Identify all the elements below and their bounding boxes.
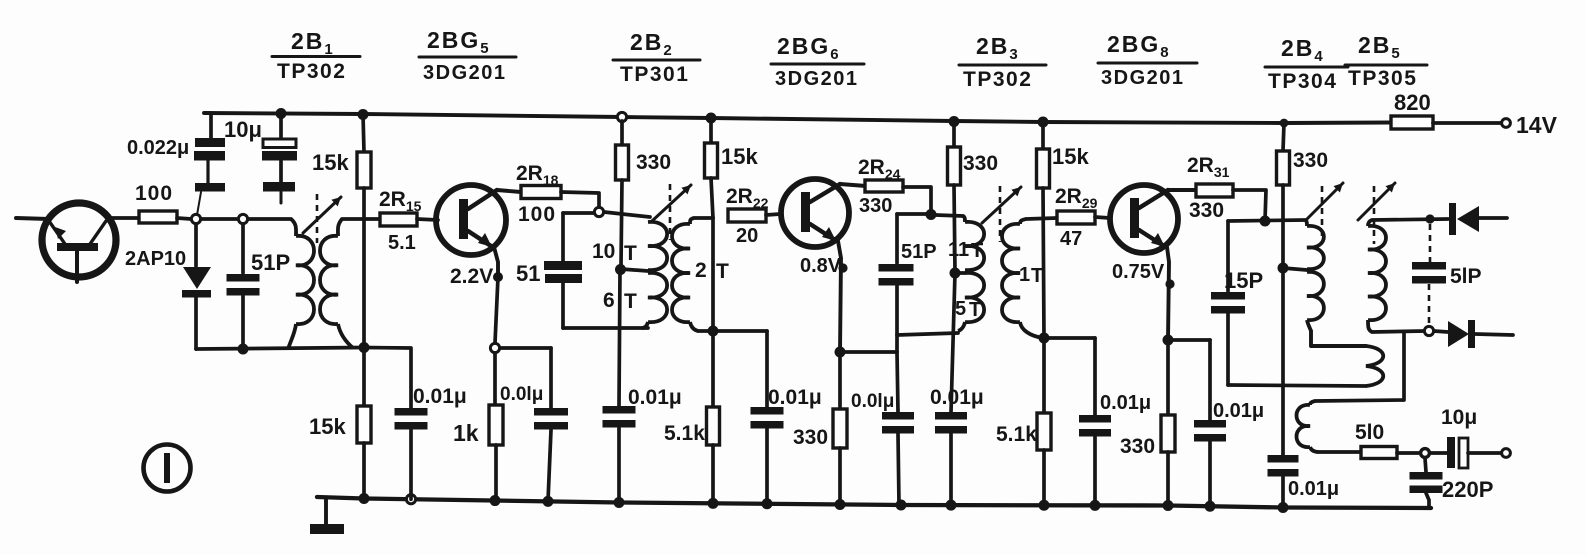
resistor 2R31 330 (collector to detector tank) bbox=[1196, 184, 1233, 197]
wire 2R29 to base of 2BG8 bbox=[1095, 217, 1110, 218]
adjustable core of 2B4 bbox=[1321, 186, 1324, 244]
svg-text:0.01μ: 0.01μ bbox=[1288, 478, 1339, 500]
svg-text:TP302: TP302 bbox=[963, 68, 1032, 91]
resistor 15k (bias, stage 3) bbox=[1037, 117, 1050, 339]
wire tank node to 15P and 2B4 top bbox=[1228, 220, 1306, 221]
resistor 2R24 330 (collector to tank, stage 2) bbox=[865, 180, 903, 192]
transformer 2B4 secondary winding (coupling loop) bbox=[1311, 331, 1383, 386]
wire from 820 to 14V terminal bbox=[1433, 121, 1501, 125]
wire 2R22 to base of 2BG6 bbox=[766, 214, 780, 215]
svg-text:0.01μ: 0.01μ bbox=[1213, 400, 1264, 422]
node emitter junction stage 3 bbox=[1163, 335, 1174, 346]
wire 2BG8 emitter down bbox=[1167, 247, 1169, 340]
svg-text:0.01μ: 0.01μ bbox=[1100, 392, 1151, 414]
transistor 2BG6 (2nd IF amplifier) bbox=[781, 179, 849, 247]
svg-text:15k: 15k bbox=[1052, 144, 1089, 169]
svg-text:10μ: 10μ bbox=[224, 117, 262, 142]
svg-text:0.01μ: 0.01μ bbox=[768, 386, 822, 409]
junction dot on ground bus (15k stage1) bbox=[359, 493, 370, 504]
capacitor 10u electrolytic output coupling bbox=[1430, 437, 1501, 468]
node tank top junction (open) bbox=[594, 207, 603, 216]
wire junction to 51P cap lead bbox=[897, 212, 926, 216]
capacitor 0.01u (2B2 tap bypass) bbox=[603, 406, 636, 502]
transformer 2B2 primary winding 10T+6T bbox=[642, 222, 667, 328]
diode D1 detector (cathode left) bbox=[1449, 203, 1507, 235]
svg-text:2: 2 bbox=[695, 259, 707, 282]
label 2BG8/3DG201 (transistor V3 designator) bbox=[1098, 31, 1197, 89]
transformer 2B3 primary winding 11T+5T bbox=[958, 216, 984, 331]
wire 2B3 secondary top to base node stage3 bbox=[1026, 218, 1057, 219]
wire input lead from left edge bbox=[16, 218, 49, 219]
junction dot on ground bus (0.01u em s3) bbox=[1205, 501, 1216, 512]
test point dot on emitter 2BG6 bbox=[838, 263, 847, 272]
wire emitter node to bypass cap bbox=[840, 350, 897, 354]
svg-text:TP301: TP301 bbox=[620, 63, 689, 86]
svg-text:10: 10 bbox=[592, 240, 615, 263]
junction dot on ground bus (0.01u 2B3) bbox=[946, 500, 957, 511]
svg-text:0.0lμ: 0.0lμ bbox=[500, 384, 543, 405]
capacitor 0.01u emitter bypass stage 3 bbox=[1194, 340, 1226, 506]
test point dot on emitter 2BG8 bbox=[1165, 279, 1174, 288]
node emitter bias junction (open) bbox=[490, 343, 499, 352]
wire base node down to lower bias node bbox=[362, 219, 366, 347]
resistor 2R29 47 (base series, stage 3) bbox=[1057, 211, 1095, 224]
capacitor 0.01u (2B4 tap bypass) bbox=[1268, 455, 1299, 508]
svg-text:47: 47 bbox=[1060, 228, 1082, 250]
capacitor 51P (2B3 tank) bbox=[879, 214, 914, 352]
svg-text:100: 100 bbox=[135, 182, 173, 205]
resistor 5.1k (bias lower, stage 2) bbox=[707, 331, 720, 504]
capacitor 0.01u emitter bypass stage 2 bbox=[882, 352, 914, 505]
resistor 100 (series input) bbox=[139, 211, 177, 223]
svg-text:15k: 15k bbox=[721, 144, 758, 169]
wire node A to node B bbox=[201, 217, 238, 221]
adjustable core of 2B1 bbox=[316, 194, 319, 243]
junction dot on ground bus (0.01u s2 base) bbox=[762, 498, 773, 509]
capacitor 10u electrolytic (supply bypass) bbox=[262, 108, 297, 203]
wire 2B3 tank bottom rail bbox=[897, 333, 958, 335]
svg-text:5: 5 bbox=[955, 298, 966, 320]
resistor 330 (emitter, stage 2) bbox=[833, 352, 847, 505]
svg-text:T: T bbox=[624, 242, 637, 265]
capacitor 0.01u (2B3 tap bypass) bbox=[935, 412, 967, 505]
transformer 2B1 primary winding bbox=[288, 219, 314, 349]
svg-text:3DG201: 3DG201 bbox=[775, 68, 859, 90]
wire emitter node to 0.01u bypass bbox=[500, 346, 551, 350]
svg-text:15k: 15k bbox=[309, 414, 346, 439]
svg-text:1k: 1k bbox=[453, 420, 479, 446]
capacitor 51 (2B2 tank) bbox=[544, 213, 582, 328]
node junction open at diode rail bbox=[1424, 326, 1433, 335]
svg-text:330: 330 bbox=[636, 151, 671, 174]
svg-text:100: 100 bbox=[518, 203, 556, 226]
svg-text:2AP10: 2AP10 bbox=[125, 248, 186, 270]
label 2BG6/3DG201 (transistor V2 designator) bbox=[771, 33, 864, 90]
node junction dot lower bias node bbox=[359, 342, 370, 353]
svg-text:330: 330 bbox=[963, 152, 998, 175]
capacitor 0.01u emitter bypass stage 1 bbox=[534, 348, 568, 501]
wire input transistor to resistor 100 bbox=[107, 216, 139, 220]
svg-text:820: 820 bbox=[1394, 90, 1431, 115]
node junction dot stage3 lower bbox=[1039, 333, 1050, 344]
node junction dot at 51P bottom bbox=[238, 344, 249, 355]
wire tap down to 0.01u bbox=[951, 273, 955, 412]
svg-text:10μ: 10μ bbox=[1441, 406, 1477, 429]
svg-text:5l0: 5l0 bbox=[1355, 421, 1384, 444]
resistor 1k (emitter, stage 1) bbox=[489, 353, 503, 500]
terminal audio output bbox=[1502, 449, 1511, 458]
adjustable core of 2B3 bbox=[999, 186, 1002, 242]
svg-text:0.01μ: 0.01μ bbox=[628, 386, 682, 409]
wire 2R18 to tank top corner bbox=[561, 192, 599, 207]
junction dot on ground bus (330 em s3) bbox=[1163, 500, 1174, 511]
resistor 2R22 20 (base series, stage 2) bbox=[728, 209, 766, 222]
svg-text:T: T bbox=[716, 260, 729, 283]
resistor 330 (emitter, stage 3) bbox=[1161, 340, 1175, 506]
svg-text:330: 330 bbox=[859, 195, 892, 217]
label 2B1/TP302 (IF transformer T1 designator) bbox=[272, 28, 360, 83]
resistor 15k lower (bias, stage 1) bbox=[357, 347, 371, 498]
svg-text:220P: 220P bbox=[1442, 477, 1493, 502]
diode D2 detector (cathode right) bbox=[1448, 320, 1513, 348]
capacitor 0.022u (from supply bus to node A) bbox=[194, 113, 225, 215]
transformer 2B2 secondary winding 2T bbox=[672, 218, 698, 331]
wire 2BG5 emitter down bbox=[494, 247, 498, 276]
wire 2B5 primary top to detector diode bbox=[1372, 219, 1448, 220]
transformer 2B5 secondary winding bbox=[1297, 401, 1320, 452]
label 2BG5/3DG201 (transistor V1 designator) bbox=[419, 27, 516, 84]
svg-text:5.1: 5.1 bbox=[388, 232, 416, 254]
wire 2B4 tap down to 0.01u bbox=[1281, 268, 1285, 455]
svg-text:6: 6 bbox=[603, 289, 615, 312]
label 2B3/TP302 (IF transformer T3 designator) bbox=[959, 33, 1046, 91]
junction dot on ground bus (0.01u s3 base) bbox=[1090, 500, 1101, 511]
svg-text:2.2V: 2.2V bbox=[450, 265, 493, 288]
svg-text:3DG201: 3DG201 bbox=[1101, 67, 1185, 89]
svg-text:330: 330 bbox=[1293, 149, 1328, 172]
wire 2R31 to detector tank node bbox=[1233, 190, 1266, 221]
capacitor 0.01u (stage3 base return) bbox=[1079, 338, 1111, 505]
capacitor 51P (detector filter) bbox=[1412, 224, 1446, 327]
adjustable core of 2B5 bbox=[1373, 186, 1376, 244]
node 2B3 tap junction bbox=[950, 268, 961, 279]
svg-text:14V: 14V bbox=[1516, 112, 1558, 138]
terminal 14V supply bbox=[1502, 119, 1511, 128]
transistor 2BG8 (3rd IF amplifier) bbox=[1110, 185, 1178, 253]
wire 2BG5 collector to 2R18 bbox=[497, 190, 521, 192]
wire 2B3 tap to winding bbox=[955, 271, 965, 275]
transformer 2B1 secondary winding bbox=[320, 219, 353, 348]
wire ground bus (bottom rail) bbox=[317, 497, 1431, 508]
junction dot on ground bus (1k) bbox=[490, 495, 501, 506]
wire 2R15 to base of 2BG5 bbox=[417, 219, 438, 220]
svg-text:0.75V: 0.75V bbox=[1112, 261, 1165, 283]
resistor 330 (supply to 2B3 tap) bbox=[948, 116, 961, 272]
label 2B5/TP305 (detector transformer designator) bbox=[1345, 32, 1427, 90]
wire tap down to 0.01u bbox=[619, 270, 620, 406]
node detector tank junction bbox=[1260, 216, 1271, 227]
ground symbol bbox=[310, 498, 344, 534]
junction open dot on ground bus (0.01u input) bbox=[406, 495, 415, 504]
junction dot on ground bus (5.1k s2) bbox=[708, 498, 719, 509]
svg-text:3DG201: 3DG201 bbox=[423, 62, 507, 84]
resistor 330 (supply to 2B4 tap) bbox=[1277, 119, 1290, 267]
junction dot on ground bus (330 em s2) bbox=[835, 499, 846, 510]
junction dot on ground bus (0.01u 2B2) bbox=[614, 497, 625, 508]
capacitor 15P (neutralizing) bbox=[1211, 221, 1245, 385]
node B junction (open) bbox=[238, 214, 247, 223]
node open circle on bus at 330 feed bbox=[617, 112, 626, 121]
wire 2BG8 collector to 2R31 bbox=[1168, 188, 1196, 192]
node junction at 51P detector bbox=[1425, 214, 1434, 223]
svg-text:TP304: TP304 bbox=[1268, 70, 1337, 93]
svg-text:51P: 51P bbox=[251, 250, 290, 275]
wire node B to transformer 2B1 primary top bbox=[248, 217, 291, 221]
resistor 2R18 100 (collector to tank, stage 1) bbox=[521, 186, 561, 199]
wire to diode D2 bbox=[1434, 331, 1448, 332]
wire emitter node to bypass cap stage3 bbox=[1168, 338, 1210, 342]
svg-text:0.0lμ: 0.0lμ bbox=[851, 391, 894, 412]
wire 2BG6 emitter down bbox=[838, 241, 841, 352]
wire 2BG6 collector to 2R24 bbox=[840, 184, 866, 186]
wire bias node to 0.01u stage3 bbox=[1044, 336, 1095, 340]
svg-text:0.022μ: 0.022μ bbox=[127, 137, 189, 159]
resistor 820 (supply decoupling) bbox=[1391, 116, 1433, 129]
capacitor 0.01u (input bias bypass) bbox=[364, 348, 428, 500]
label 2B4/TP304 (detector transformer designator) bbox=[1265, 35, 1348, 93]
node 2B4 tap junction bbox=[1278, 263, 1289, 274]
svg-text:330: 330 bbox=[1189, 199, 1224, 222]
wire junction to 2B2 primary top bbox=[604, 212, 650, 217]
node output junction (open) bbox=[1421, 449, 1430, 458]
svg-text:T: T bbox=[624, 290, 637, 313]
svg-text:TP302: TP302 bbox=[277, 60, 346, 83]
resistor 330 (supply to 2B2 tap) bbox=[616, 121, 629, 266]
node A junction (open) bbox=[191, 214, 200, 223]
resistor 15k upper (bias, stage 1) bbox=[357, 109, 371, 219]
wire return line under input stage bbox=[196, 348, 364, 350]
transformer 2B3 secondary winding 1T bbox=[1002, 219, 1043, 338]
svg-text:T: T bbox=[1031, 265, 1043, 287]
svg-text:0.01μ: 0.01μ bbox=[930, 386, 984, 409]
wire +14V supply bus (top rail) bbox=[204, 113, 1390, 123]
resistor 510 (audio output series) bbox=[1361, 447, 1397, 459]
resistor 2R15 5.1 (base series, stage 1) bbox=[380, 213, 417, 226]
node 2B2 tap junction bbox=[615, 264, 626, 275]
junction dot on ground bus (0.01u s1) bbox=[543, 496, 554, 507]
node tank top junction stage2 bbox=[926, 209, 937, 220]
wire 2B2 tank bottom rail bbox=[563, 326, 648, 330]
svg-text:T: T bbox=[971, 240, 983, 262]
capacitor 220P (output filter) bbox=[1410, 458, 1443, 508]
circled figure number 1 bbox=[144, 445, 191, 492]
node junction dot bbox=[708, 326, 719, 337]
svg-text:5lP: 5lP bbox=[1450, 265, 1482, 288]
wire junction to 51 cap lead bbox=[563, 211, 594, 215]
wire 2B5 secondary to 510 bbox=[1319, 450, 1361, 454]
svg-text:TP305: TP305 bbox=[1348, 67, 1417, 90]
resistor 5.1k (bias lower, stage 3) bbox=[1037, 338, 1051, 504]
svg-text:15k: 15k bbox=[312, 150, 349, 175]
wire 2B2 tap to winding bbox=[621, 269, 648, 271]
svg-text:15P: 15P bbox=[1224, 268, 1263, 293]
svg-text:5.1k: 5.1k bbox=[996, 423, 1037, 446]
wire 2B1 secondary top to 2R15 bbox=[342, 217, 380, 221]
junction dot on ground bus (5.1k s3) bbox=[1039, 500, 1050, 511]
resistor 15k (bias upper, stage 2) bbox=[705, 113, 718, 219]
svg-text:330: 330 bbox=[1120, 435, 1155, 458]
transistor Q0 converter (input device) bbox=[42, 203, 116, 282]
junction dot on ground bus (0.01u em s2) bbox=[896, 500, 907, 511]
label 2B2/TP301 (IF transformer T2 designator) bbox=[613, 29, 700, 86]
wire 100 to node A bbox=[177, 218, 191, 219]
transformer 2B4 primary winding bbox=[1306, 220, 1324, 331]
wire 2B4 secondary return to 15P bottom bbox=[1228, 385, 1366, 386]
wire 510 to output node bbox=[1397, 451, 1420, 455]
transformer 2B5 primary winding bbox=[1368, 220, 1386, 332]
wire 2B2 secondary top to base node stage2 bbox=[694, 216, 713, 220]
adjustable core of 2B2 bbox=[669, 184, 672, 240]
wire 2B2 secondary bottom rail bbox=[698, 329, 767, 333]
wire base node to 2B2 bottom bbox=[711, 218, 715, 331]
svg-text:T: T bbox=[969, 299, 981, 321]
test point 2.2V on emitter bbox=[493, 272, 503, 282]
diode 2AP10 (AGC/detector diode) bbox=[182, 224, 211, 349]
svg-text:20: 20 bbox=[736, 225, 758, 247]
svg-text:1: 1 bbox=[1019, 264, 1030, 286]
wire riser from diode rail down to 2B5 secondary bbox=[1315, 332, 1404, 401]
svg-text:330: 330 bbox=[793, 426, 828, 449]
wire emitter to bias node bbox=[495, 277, 498, 343]
svg-text:5.1k: 5.1k bbox=[664, 422, 705, 445]
capacitor 0.01u (stage2 base return) bbox=[751, 331, 784, 503]
capacitor 51P (input tuned circuit) bbox=[227, 224, 260, 348]
transistor 2BG5 (1st IF amplifier) bbox=[436, 185, 506, 255]
svg-text:0.01μ: 0.01μ bbox=[413, 385, 467, 408]
node emitter junction stage 2 bbox=[835, 347, 846, 358]
wire 2R24 to 2B3 tank top bbox=[903, 187, 931, 214]
wire 2B5 primary bottom rail bbox=[1372, 331, 1425, 332]
wire 2B4 tap to winding bbox=[1283, 268, 1307, 270]
svg-text:11: 11 bbox=[948, 239, 969, 261]
wire junction to 11T top bbox=[936, 215, 963, 216]
svg-text:51P: 51P bbox=[901, 241, 937, 263]
svg-text:51: 51 bbox=[516, 261, 540, 286]
junction dot on ground bus (0.01u 2B4) bbox=[1278, 502, 1289, 513]
svg-text:0.8V: 0.8V bbox=[800, 255, 842, 277]
